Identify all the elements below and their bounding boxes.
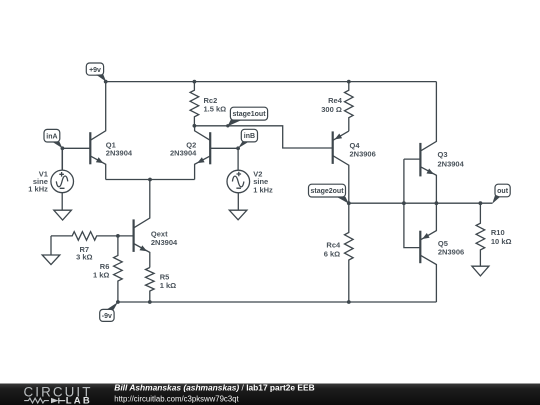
svg-text:http://circuitlab.com/c3pksww7: http://circuitlab.com/c3pksww79c3qt xyxy=(114,394,239,403)
ground at R10 xyxy=(472,266,489,276)
svg-text:1.5 kΩ: 1.5 kΩ xyxy=(204,105,227,114)
svg-text:1 kHz: 1 kHz xyxy=(253,185,273,194)
ground under V1 xyxy=(54,210,72,220)
svg-text:Re4: Re4 xyxy=(328,96,343,105)
wire -9v rail xyxy=(118,301,437,303)
wire +9v top rail xyxy=(106,81,437,83)
node -9v label xyxy=(100,302,118,321)
node inA label xyxy=(44,129,62,148)
resistor R6 xyxy=(93,236,122,302)
transistor Q1 2N3904 xyxy=(90,82,133,180)
junction Q3 base tap xyxy=(402,201,406,205)
resistor Rc2 xyxy=(190,82,226,126)
transistor Q4 2N3906 xyxy=(333,131,376,203)
svg-text:2N3906: 2N3906 xyxy=(350,149,376,158)
svg-text:inA: inA xyxy=(46,133,57,140)
transistor Q5 2N3906 xyxy=(420,203,464,302)
node inB label xyxy=(238,129,257,148)
svg-text:1 kΩ: 1 kΩ xyxy=(93,271,109,280)
resistor Rc4 xyxy=(324,203,353,302)
svg-text:stage2out: stage2out xyxy=(310,188,344,195)
junction R6 bottom on -9v rail xyxy=(116,300,120,304)
junction R7/R6/Qext base xyxy=(116,234,120,238)
wire emitter bus Q1-Q2 xyxy=(106,179,195,181)
junction R10 top / out xyxy=(479,201,483,205)
svg-text:out: out xyxy=(497,188,509,195)
transistor Qext 2N3904 xyxy=(118,180,178,268)
node stage2out label xyxy=(309,184,349,203)
ground under V2 xyxy=(229,210,247,220)
junction Rc2 bottom / Q2 collector xyxy=(193,124,197,128)
junction Rc4 bottom on -9v rail xyxy=(347,300,351,304)
node +9v label xyxy=(86,63,106,82)
wire stage2out rail xyxy=(349,202,493,204)
junction Re4 top on +9v rail xyxy=(347,80,351,84)
junction inB node xyxy=(236,146,240,150)
voltage source V2 xyxy=(227,169,273,210)
svg-text:+9v: +9v xyxy=(89,67,101,74)
svg-text:-9v: -9v xyxy=(102,313,112,320)
svg-text:2N3904: 2N3904 xyxy=(106,149,133,158)
transistor Q3 2N3904 xyxy=(404,82,465,204)
svg-text:6 kΩ: 6 kΩ xyxy=(324,249,340,258)
junction stage2out node xyxy=(347,201,351,205)
voltage source V1 xyxy=(28,148,73,210)
resistor R10 xyxy=(476,203,511,266)
wire stage1out net: Rc2 bottom to Q4 base xyxy=(194,126,332,148)
svg-text:2N3904: 2N3904 xyxy=(151,238,178,247)
wire R7 left to ground xyxy=(50,236,52,255)
svg-text:LAB: LAB xyxy=(66,396,92,405)
svg-text:Bill Ashmanskas (ashmanskas) /: Bill Ashmanskas (ashmanskas) / lab17 par… xyxy=(114,382,314,392)
resistor R7 xyxy=(51,232,118,262)
junction Rc2 top on +9v rail xyxy=(193,80,197,84)
junction Q1/Q2 emitters to Qext collector xyxy=(148,178,152,182)
svg-text:10 kΩ: 10 kΩ xyxy=(491,237,512,246)
svg-text:3 kΩ: 3 kΩ xyxy=(76,252,92,261)
svg-text:R10: R10 xyxy=(491,228,505,237)
ground at R7 xyxy=(42,255,60,265)
wire Q3 base drop to stage2out and Q5 base xyxy=(404,159,420,248)
junction Q3 emitter / Q5 emitter xyxy=(435,201,439,205)
svg-text:2N3904: 2N3904 xyxy=(438,159,465,168)
svg-text:1 kHz: 1 kHz xyxy=(28,185,48,194)
CircuitLab logo xyxy=(24,384,93,405)
junction +9v node xyxy=(104,80,108,84)
junction stage1out tap xyxy=(226,124,229,127)
svg-text:2N3904: 2N3904 xyxy=(170,149,197,158)
svg-text:1 kΩ: 1 kΩ xyxy=(160,281,176,290)
svg-text:Q3: Q3 xyxy=(438,150,448,159)
resistor Re4 xyxy=(321,82,353,132)
node out label xyxy=(492,184,510,204)
junction R5 bottom on -9v rail xyxy=(148,300,152,304)
node stage1out label xyxy=(227,107,267,126)
resistor R5 xyxy=(146,268,177,303)
svg-text:inB: inB xyxy=(244,133,255,140)
svg-text:stage1out: stage1out xyxy=(232,111,266,118)
junction inA node xyxy=(61,146,65,150)
svg-text:2N3906: 2N3906 xyxy=(438,247,464,256)
svg-text:300 Ω: 300 Ω xyxy=(321,105,342,114)
wire inA node xyxy=(62,148,90,170)
transistor Q2 2N3904 xyxy=(170,126,238,180)
wire inB node xyxy=(237,148,239,170)
